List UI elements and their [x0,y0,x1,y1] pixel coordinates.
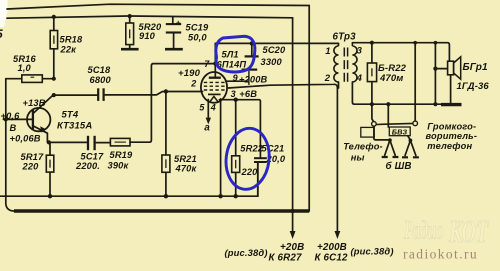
wire: left edge vertical (R16 left, base feed, to lower bus) [6,79,14,211]
wire: secondary bottom return [352,82,444,104]
plug 2 (speaker-phone) [402,140,419,157]
tube 5Л1 6П14П [201,43,227,102]
svg-text:В: В [10,123,17,133]
anode bar [209,77,221,79]
ground bus (upper) [0,163,258,196]
svg-text:+190: +190 [178,68,201,79]
svg-text:390к: 390к [108,160,130,170]
node: speaker tap [433,67,437,71]
wire: pin 9 screen stub [226,80,248,82]
svg-text:4: 4 [210,103,216,113]
wire: БВЗ box feed [387,104,389,127]
label +0,6 В [1,111,21,133]
svg-text:220: 220 [22,162,40,172]
jack frame [361,127,374,137]
svg-text:5С17: 5С17 [81,152,105,162]
node: emitter junction [47,140,51,144]
svg-text:910: 910 [139,31,156,41]
svg-text:5С19: 5С19 [186,23,210,33]
label 5С19 50,0 [186,23,210,43]
node: speaker line bottom [433,102,437,106]
svg-text:а: а [204,123,210,134]
wire: grid wire from C18 to tube [105,92,203,95]
wire: anode to transformer pin 1 [215,42,338,44]
switch БВЗ box [389,127,410,136]
node: wire B crossing lower bus [290,209,294,213]
svg-text:7: 7 [204,59,210,69]
resistor 5R21 [162,92,170,197]
node dots on ground bus [48,194,52,198]
node: C20 tap on anode wire [250,41,254,45]
svg-text:+13В: +13В [23,98,46,108]
svg-text:КТ315А: КТ315А [57,121,92,132]
wire: contact R feed [414,43,416,121]
svg-text:5R21: 5R21 [174,154,197,164]
node: plug 2 tip [409,139,413,143]
wire C17 to R19 [96,142,111,144]
blue annotation loop around 5Л1 6П14П [216,36,255,72]
transformer 6Тр3 [324,32,363,84]
svg-text:+: + [176,19,181,28]
wire: contact L feed [372,104,374,121]
label БГр1 1ГД-36 [457,62,490,92]
node: speaker line tap [434,41,438,45]
transistor Q 5Т4 КТ315А [27,95,53,142]
loudspeaker БГр1 [448,57,461,103]
svg-text:50,0: 50,0 [188,33,207,43]
arrow to +20V [290,231,296,239]
wire A: vertical from line 1 down to lower bus [308,6,310,212]
svg-text:+0,06В: +0,06В [10,133,41,143]
heater [209,96,218,102]
label 5R20 910 [139,22,163,41]
label 5R17 220 [21,152,45,172]
label 5R19 390к [108,150,134,170]
label Б-R22 470м [378,63,407,84]
node: R16/R18 junction [52,77,56,81]
svg-text:2: 2 [190,78,196,88]
label 5С18 6800 [88,65,112,85]
svg-text:+0,6: +0,6 [1,111,21,121]
node: plug 1 tip [388,138,392,142]
resistor 5R16 [6,75,54,83]
svg-text:220: 220 [241,167,259,177]
node: collector junction [52,93,56,97]
label 5R22 220 [240,144,264,178]
svg-text:б ШВ: б ШВ [386,161,412,172]
svg-text:3: 3 [231,89,236,99]
svg-text:5: 5 [199,103,205,113]
svg-text:+20В: +20В [280,242,304,253]
svg-text:БВЗ: БВЗ [392,127,408,136]
node: Б-R22 bottom / contact feed [370,102,374,106]
svg-text:КОТ: КОТ [448,213,489,249]
chassis ground of C19 [165,48,183,51]
svg-text:(рис.38д): (рис.38д) [225,247,268,258]
svg-text:radiokot.ru: radiokot.ru [403,247,478,262]
label 5R18 22к [60,35,84,55]
svg-text:22к: 22к [60,45,78,55]
svg-text:+200В: +200В [317,242,347,253]
resistor 5R20 [126,16,134,48]
svg-text:5Т4: 5Т4 [62,110,79,121]
svg-text:телефон: телефон [427,141,472,151]
label 5С17 2200. [75,152,104,172]
wire: БВЗ box to plug 2 [408,136,411,140]
watermark Радио КОТ [403,213,488,249]
svg-text:К 6R27: К 6R27 [269,253,302,264]
plug 1 (phones) [382,140,399,157]
resistor 5R22 [232,100,240,197]
svg-text:5R17: 5R17 [21,152,45,162]
svg-text:3: 3 [357,46,363,57]
label 5С21 20,0 [262,144,286,164]
label +200В К 6С12 [315,242,348,264]
svg-text:1ГД-36: 1ГД-36 [457,81,490,92]
wire B: vertical from line 2 down to +20V arrow [292,18,294,232]
node: line2 / R18 junction [52,15,56,19]
svg-text:2200.: 2200. [75,161,100,171]
wire: contact L to plug 1 [374,126,390,140]
node: line2 / R20 junction [128,14,132,18]
wire: speaker column [434,43,436,104]
pin 7 anode lead [214,43,216,76]
resistor 5R19 [110,138,130,146]
svg-text:Радио: Радио [403,216,444,245]
wire: emitter row to C17 [49,141,87,143]
svg-text:ны: ны [351,153,365,163]
wire: heater pin4 to ground bus [220,99,222,196]
arrow to +200V [335,231,341,239]
grid g1 [204,89,225,91]
svg-text:470м: 470м [379,73,403,84]
svg-text:1: 1 [325,46,330,57]
svg-text:3300: 3300 [261,57,283,67]
label 5Л1 6П14П [217,50,247,70]
node: БВЗ feed [386,102,390,106]
svg-text:К 6С12: К 6С12 [315,253,348,264]
wire: secondary top to speaker column [352,43,449,62]
chassis bar [441,103,462,106]
secondary winding [352,43,357,82]
svg-text:5R19: 5R19 [110,150,134,160]
svg-text:1,0: 1,0 [18,63,32,73]
resistor 5R18 [50,17,57,79]
wire: +200V rail to transformer pin 2 drop [228,84,337,232]
capacitor 5С21 [254,158,267,196]
svg-text:+6В: +6В [239,89,257,99]
svg-text:6800: 6800 [90,75,112,85]
svg-text:+200В: +200В [239,75,268,85]
primary winding [334,43,339,82]
node: cathode R22 tap [234,98,238,102]
node: base wire junction on left vertical [4,117,8,121]
heater pin5 arrow to net a [204,100,211,134]
label Телефоны [343,142,383,163]
svg-text:5С21: 5С21 [262,144,285,154]
label 5R16 1,0 [13,54,37,73]
svg-text:4: 4 [356,73,363,84]
wire: top supply line 1 [7,4,309,9]
node: Б-R22 top [370,41,374,45]
svg-text:Телефо-: Телефо- [343,142,383,152]
svg-text:воритель-: воритель- [426,131,478,141]
wire: speaker feed stub [435,68,447,70]
wire: top supply line 2 [7,16,293,18]
switch contact L [372,122,377,127]
core [343,48,345,85]
label +20В К 6R27 [269,242,305,264]
svg-text:5: 5 [0,27,3,41]
svg-text:470к: 470к [175,163,198,173]
resistor Б-R22 [367,43,376,104]
grid g3 [204,81,225,83]
label Громкоговоритель-телефон [426,121,478,151]
label 5R21 470к [174,154,197,174]
wire: primary pin2 into +200V drop [338,82,340,88]
node: anode row / pin7 tee [213,62,217,66]
cathode [208,93,221,95]
resistor 5R17 [46,142,54,196]
switch contact R [413,121,418,126]
wire: base wire [3,118,33,120]
grid g2 [204,85,225,87]
lower bus (thick) [14,209,309,212]
node: R21 top junction [164,89,168,93]
svg-text:5С20: 5С20 [263,45,287,55]
svg-text:Громкого-: Громкого- [427,121,476,131]
wire: cathode row [219,100,260,158]
capacitor 5С20 [242,43,259,85]
wire: collector row to C18 [54,94,97,96]
label 5С20 3300 [261,45,287,67]
svg-text:5R18: 5R18 [60,35,84,45]
capacitor 5С18 [98,88,103,101]
pin labels 7 2 9 3 5 4 [190,59,237,113]
svg-text:6Тр3: 6Тр3 [333,32,357,43]
svg-text:5С18: 5С18 [88,65,112,75]
node: phones feed tap [413,41,417,45]
capacitor 5С17 [88,136,95,150]
paper margin notch top-left [0,0,8,27]
svg-text:2: 2 [324,73,331,84]
capacitor 5C19 [166,17,181,49]
switch bar [376,123,413,124]
svg-text:5Л1: 5Л1 [222,50,239,60]
svg-text:БГр1: БГр1 [463,62,489,73]
label 5Т4 КТ315А [57,110,92,132]
svg-text:(рис.38д): (рис.38д) [351,246,394,257]
wire: R19 right up to anode row [130,64,215,143]
chassis ground of R20 [121,48,139,51]
blue annotation ellipse around 5R22 [223,126,273,192]
svg-text:5R22: 5R22 [240,144,264,154]
